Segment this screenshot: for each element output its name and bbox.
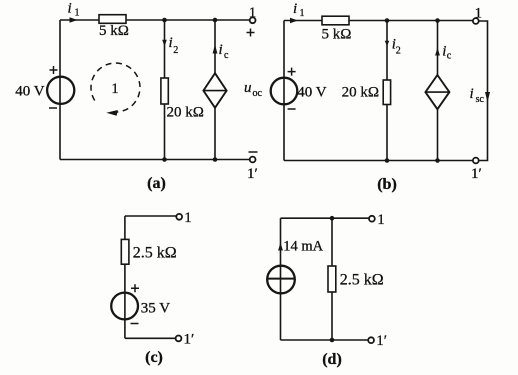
svg-text:1: 1 — [475, 6, 483, 22]
svg-text:i: i — [219, 42, 223, 58]
svg-text:5 kΩ: 5 kΩ — [322, 27, 352, 43]
svg-text:14 mA: 14 mA — [283, 239, 323, 255]
svg-text:40 V: 40 V — [15, 84, 44, 100]
svg-text:20 kΩ: 20 kΩ — [342, 84, 379, 100]
svg-text:u: u — [244, 80, 252, 96]
svg-text:c: c — [447, 51, 452, 62]
svg-text:1′: 1′ — [376, 333, 387, 349]
svg-text:2.5 kΩ: 2.5 kΩ — [133, 245, 177, 262]
svg-text:(b): (b) — [377, 176, 397, 193]
svg-text:1: 1 — [300, 8, 305, 19]
svg-text:1′: 1′ — [247, 166, 258, 182]
svg-text:1: 1 — [377, 212, 385, 228]
svg-text:2: 2 — [396, 45, 401, 56]
svg-text:1′: 1′ — [471, 166, 482, 182]
svg-text:c: c — [224, 50, 229, 61]
svg-text:5 kΩ: 5 kΩ — [99, 23, 129, 39]
svg-text:i: i — [169, 35, 173, 51]
svg-text:2: 2 — [173, 45, 178, 56]
svg-text:1: 1 — [249, 5, 257, 21]
svg-text:i: i — [470, 86, 474, 102]
svg-text:1: 1 — [75, 8, 80, 19]
svg-text:sc: sc — [476, 94, 485, 105]
svg-text:35 V: 35 V — [141, 301, 170, 317]
svg-text:(c): (c) — [145, 349, 163, 366]
svg-text:1′: 1′ — [184, 332, 195, 348]
svg-text:40 V: 40 V — [297, 84, 326, 100]
svg-text:i: i — [293, 1, 297, 17]
svg-text:1: 1 — [111, 81, 119, 97]
svg-text:oc: oc — [253, 88, 263, 99]
svg-text:(d): (d) — [322, 351, 342, 368]
svg-text:2.5 kΩ: 2.5 kΩ — [340, 272, 384, 289]
svg-text:1: 1 — [184, 210, 192, 226]
svg-text:i: i — [68, 1, 72, 17]
svg-text:(a): (a) — [147, 175, 166, 192]
svg-text:20 kΩ: 20 kΩ — [167, 105, 204, 121]
